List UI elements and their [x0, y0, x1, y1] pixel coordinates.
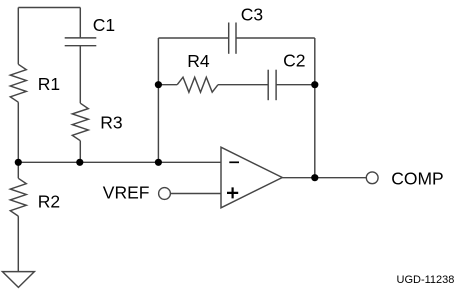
svg-text:C3: C3: [241, 4, 263, 24]
svg-text:R3: R3: [100, 113, 122, 133]
svg-text:C2: C2: [283, 51, 305, 71]
svg-text:R1: R1: [38, 74, 60, 94]
svg-text:R2: R2: [38, 192, 60, 212]
svg-text:COMP: COMP: [391, 169, 444, 189]
svg-text:VREF: VREF: [103, 183, 150, 203]
svg-text:UGD-11238: UGD-11238: [397, 274, 454, 286]
svg-text:R4: R4: [187, 51, 210, 71]
svg-text:C1: C1: [93, 15, 115, 35]
